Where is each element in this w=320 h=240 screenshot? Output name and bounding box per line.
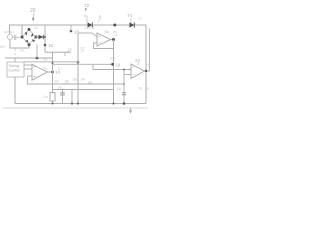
node y84 x124 junction [123, 83, 125, 85]
node U3 out [145, 70, 147, 72]
ground arrow below bus [129, 108, 132, 113]
node R1 bus junction [52, 103, 54, 105]
wire x72 down [71, 90, 73, 104]
capacitor C1 [62, 90, 64, 104]
svg-text:Timing: Timing [9, 64, 19, 68]
diode D7 on top bus [130, 22, 135, 27]
op-amp U2 [97, 33, 111, 46]
wire box top riser [14, 58, 16, 62]
wire box bottom down to bus [14, 77, 16, 104]
svg-text:24: 24 [135, 58, 140, 63]
bridge diode d [32, 39, 36, 42]
wire mid bus x52 [52, 52, 54, 92]
node x72 bus [71, 102, 73, 104]
wire diagonal to U2 input [92, 33, 97, 37]
svg-text:Rg: Rg [110, 57, 115, 61]
box control unit [7, 62, 24, 77]
wire x124 vertical [123, 70, 125, 104]
svg-text:20: 20 [30, 8, 36, 14]
svg-text:2x: 2x [145, 87, 149, 91]
svg-text:1x: 1x [44, 94, 48, 99]
svg-text:3a: 3a [73, 78, 78, 82]
svg-text:MV: MV [0, 45, 6, 49]
wire bus to bridge left [21, 25, 23, 36]
svg-text:Control: Control [9, 69, 21, 73]
bridge diode a [25, 32, 28, 36]
op-amp U3 [131, 64, 145, 79]
bridge diode b [31, 33, 34, 37]
node dot on top bus [113, 24, 116, 27]
svg-text:12: 12 [67, 48, 72, 53]
svg-text:6x: 6x [139, 87, 143, 91]
wire second vertical right [149, 29, 151, 72]
capacitor on x124 [122, 93, 126, 95]
node J1 [44, 36, 46, 38]
svg-text:34: 34 [81, 78, 85, 82]
bridge node left [21, 36, 24, 39]
AC source riser [9, 25, 11, 35]
wire U2 out [111, 39, 114, 41]
wire box top to x78 [24, 61, 78, 63]
svg-text:'4: '4 [13, 53, 16, 57]
wire box to op-amp input a [24, 64, 32, 66]
wire y33 to U2 [78, 32, 92, 34]
node dot 16 [44, 44, 47, 47]
node x113 bus [112, 102, 114, 104]
wire U3 output [145, 70, 150, 72]
svg-text:18: 18 [74, 30, 79, 35]
svg-text:4x: 4x [44, 58, 48, 62]
node dot 18a [70, 30, 73, 33]
AC source V1 [7, 34, 12, 39]
wire right border [145, 25, 147, 104]
bridge node right [35, 36, 38, 39]
bridge node top [28, 28, 31, 31]
svg-text:74: 74 [127, 13, 132, 18]
op-amp U1 [32, 64, 47, 80]
svg-text:2x: 2x [113, 31, 117, 35]
node dot on y57 [36, 57, 39, 60]
wire bridge bottom to y57 [36, 45, 38, 59]
wire left mid y57 [5, 57, 53, 59]
wire y89 [53, 89, 114, 91]
wire box to op-amp input b [24, 68, 32, 70]
svg-text:2x: 2x [55, 80, 59, 84]
svg-text:2x: 2x [58, 86, 62, 90]
vertical bus x78 [77, 33, 79, 104]
wire U2 feedback [94, 43, 114, 49]
wire U1 output [47, 71, 52, 73]
svg-text:1u: 1u [58, 67, 62, 71]
wire junction up to top bus [44, 25, 46, 37]
node x78 bus [77, 102, 79, 104]
wire junction down [44, 37, 46, 53]
svg-text:4x: 4x [35, 26, 39, 30]
svg-text:16: 16 [48, 43, 53, 48]
svg-text:18: 18 [116, 62, 121, 67]
svg-text:4u: 4u [43, 67, 47, 71]
wire lower frame line [3, 107, 148, 109]
svg-text:(9): (9) [65, 80, 70, 84]
wire bridge right out [36, 36, 45, 38]
svg-text:2x: 2x [88, 81, 92, 85]
wire U1 plus input feedback [28, 76, 125, 84]
svg-text:(4): (4) [117, 87, 121, 91]
node U2 out [112, 38, 115, 41]
node x124 bus [123, 102, 126, 105]
node W1 x78 [77, 61, 80, 64]
wire top bus [9, 24, 146, 26]
node 18b [111, 63, 114, 66]
node U1 out [51, 71, 54, 74]
wire x113 down [113, 40, 115, 104]
svg-text:72: 72 [84, 3, 90, 8]
svg-text:12: 12 [80, 46, 85, 51]
wire mid horizontal y52 [45, 51, 71, 53]
svg-text:110VAC: 110VAC [4, 30, 16, 34]
wire AC to bridge bottom [10, 40, 29, 48]
svg-text:y: y [147, 63, 149, 67]
diode D5 [39, 35, 44, 39]
svg-text:6x: 6x [105, 29, 109, 34]
wire y69.5 to U3 [93, 64, 131, 69]
resistor R1 [50, 93, 55, 102]
bridge diode c [25, 40, 29, 43]
bridge rectifier diamond [23, 30, 36, 45]
stub on y52 wire [64, 53, 66, 57]
wire bottom bus [15, 103, 146, 105]
svg-text:4u 2x 6: 4u 2x 6 [84, 26, 95, 30]
svg-text:4: 4 [84, 13, 87, 18]
wire U3 lower input [124, 74, 131, 76]
node x52 junction [52, 62, 54, 64]
wire AC to bridge left with series cap [13, 37, 20, 39]
node x124 top [123, 69, 125, 71]
wire y64.3 to x113 [53, 63, 113, 65]
svg-text:9: 9 [99, 15, 102, 20]
tick below AC loop [14, 48, 16, 52]
svg-text:4x: 4x [20, 48, 24, 53]
diode D6 on top bus [88, 22, 93, 27]
bridge node bottom [28, 43, 31, 46]
svg-text:Vo: Vo [138, 17, 142, 21]
